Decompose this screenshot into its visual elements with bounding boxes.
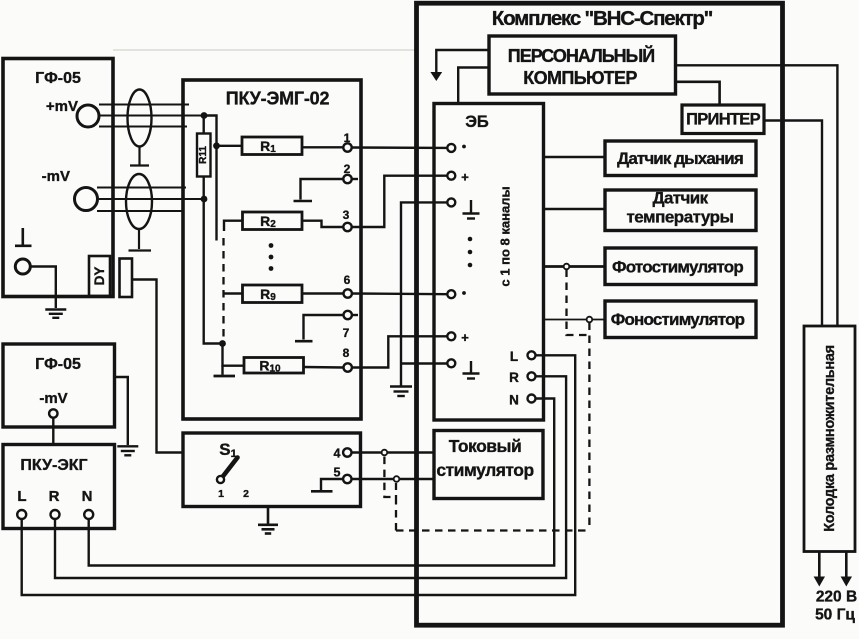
svg-text:2: 2 <box>243 488 249 500</box>
shield ground (upper) <box>130 147 149 166</box>
terminal N PKU-EKG <box>82 488 94 519</box>
breath sensor box <box>605 141 756 176</box>
dashed cable bottom run <box>396 529 589 531</box>
generator GF-05 (lower) box <box>3 344 115 427</box>
svg-text:ГФ-05: ГФ-05 <box>35 70 81 87</box>
svg-text:с 1 по 8 каналы: с 1 по 8 каналы <box>498 186 513 286</box>
wire input node to bus <box>204 116 217 241</box>
svg-text:Фоностимулятор: Фоностимулятор <box>611 310 745 329</box>
terminal -mV <box>42 168 98 211</box>
temperature sensor box <box>605 189 756 231</box>
ground bar terminal 7 <box>295 340 313 343</box>
tap circle on wire 5 <box>394 476 400 482</box>
ground bar terminal 5 <box>311 490 333 493</box>
mains arrow left <box>814 552 825 587</box>
terminal 6 <box>344 273 352 298</box>
wire switch 5 to current stimulator <box>352 478 435 480</box>
wire terminal 1 to EB <box>352 146 448 149</box>
terminal 8 <box>343 346 352 372</box>
wire EB to breath sensor <box>544 156 606 159</box>
wire terminal 8 to EB plus <box>352 336 447 367</box>
svg-text:+: + <box>461 170 469 185</box>
dashed bus channels 3..8 <box>222 238 224 342</box>
svg-text:N: N <box>509 393 519 408</box>
terminal R PKU-EKG <box>49 488 60 519</box>
svg-text:5: 5 <box>334 466 341 480</box>
wire R loop to PKU-EKG <box>55 376 566 578</box>
wire +mV triple to PKU-EMG-02 <box>99 105 204 127</box>
earth ground GF-05 lower <box>117 446 138 455</box>
terminal 4 <box>334 447 352 461</box>
complex box "VNS-Spektr" <box>417 3 783 625</box>
svg-text:N: N <box>82 488 93 505</box>
switch box <box>183 433 361 507</box>
terminal 3 <box>343 208 352 231</box>
phonostimulator box <box>605 301 756 338</box>
EB terminal R <box>509 370 535 385</box>
chassis arrow <box>430 72 442 81</box>
svg-text:R11: R11 <box>198 146 209 164</box>
junction dot on -mV wire <box>201 196 208 203</box>
earth ground below switch box <box>258 507 278 534</box>
ellipsis dots channels <box>269 243 274 271</box>
EB terminal in+ (lower) <box>447 330 469 345</box>
current stimulator box <box>434 431 543 499</box>
wire terminal 3 to EB plus <box>352 176 448 227</box>
wire terminal 7 to ground <box>304 315 344 340</box>
block PKU-EKG box <box>3 445 115 529</box>
tap circle on wire 4 <box>382 450 388 456</box>
resistor R9 <box>223 285 344 303</box>
ground terminal circle <box>15 259 30 274</box>
wire L loop to PKU-EKG <box>22 355 576 595</box>
svg-text:Датчик дыхания: Датчик дыхания <box>617 149 743 168</box>
EB ellipsis dots <box>468 237 473 268</box>
terminal 5 <box>334 466 352 484</box>
svg-text:ПКУ-ЭКГ: ПКУ-ЭКГ <box>20 457 87 474</box>
svg-text:8: 8 <box>343 346 350 360</box>
svg-text:50 Гц: 50 Гц <box>815 607 855 624</box>
wire switch 4 to current stimulator <box>352 451 435 453</box>
svg-text:R: R <box>49 488 60 505</box>
node junction dot top <box>201 112 208 119</box>
svg-text:220 В: 220 В <box>816 589 857 606</box>
terminal 2 <box>343 162 358 183</box>
svg-text:-mV: -mV <box>42 168 70 185</box>
switch S1 pivot <box>217 476 224 483</box>
connector plug beside DY <box>120 259 133 298</box>
svg-text:L: L <box>510 349 518 364</box>
wire EB to temperature sensor <box>544 208 606 210</box>
wire -mV triple to PKU-EMG-02 <box>97 188 204 212</box>
svg-text:Фотостимулятор: Фотостимулятор <box>612 258 743 277</box>
EB terminal in2 <box>447 290 466 298</box>
svg-text:ПРИНТЕР: ПРИНТЕР <box>686 111 761 129</box>
dashed cable to stimulator wires <box>384 456 396 531</box>
block EB (electronic unit) <box>434 104 544 421</box>
wire N loop to PKU-EKG <box>89 399 555 566</box>
svg-text:температуры: температуры <box>626 208 733 227</box>
terminal 1 <box>343 131 351 152</box>
svg-text:КОМПЬЮТЕР: КОМПЬЮТЕР <box>523 68 637 88</box>
resistor R10 <box>223 344 344 375</box>
personal computer box <box>489 36 676 94</box>
EB terminal in1 <box>447 144 466 152</box>
ground pin symbol inside GF-05 <box>15 228 32 246</box>
node junction dot R1 <box>213 142 220 149</box>
svg-text:R: R <box>509 370 519 385</box>
svg-text:+: + <box>461 330 469 345</box>
wire printer to kolodka <box>764 121 822 327</box>
wire R11 bottom down to common <box>204 177 223 344</box>
earth ground below GF-05 <box>45 310 66 318</box>
EB terminal L <box>510 349 536 364</box>
terminal -mV lower <box>49 409 57 417</box>
tap circle on photostimulator wire <box>564 264 570 270</box>
EB terminal N <box>509 393 535 408</box>
svg-text:3: 3 <box>343 208 350 222</box>
resistor R11 <box>197 116 211 177</box>
wire terminal 5 to ground <box>321 479 343 490</box>
shielded cable ellipse (upper) <box>128 90 152 147</box>
dashed cable photostimulator down <box>567 270 590 336</box>
distribution block (kolodka) box <box>804 326 855 552</box>
junction dot common bottom <box>219 340 226 347</box>
resistor R2 <box>224 212 343 231</box>
wire terminal 2 to ground <box>301 179 344 200</box>
mains arrow right <box>841 552 852 587</box>
ground bar terminal 2 <box>294 200 313 203</box>
dashed stub to tap 5 <box>395 483 397 497</box>
wire PC to EB <box>458 68 489 104</box>
svg-text:DY: DY <box>92 267 107 286</box>
svg-text:Токовый: Токовый <box>449 436 521 456</box>
svg-text:ПЕРСОНАЛЬНЫЙ: ПЕРСОНАЛЬНЫЙ <box>508 45 654 66</box>
printer box <box>682 105 764 134</box>
block PKU-EMG-02 box <box>183 80 361 419</box>
resistor R1 <box>217 137 344 155</box>
svg-text:ПКУ-ЭМГ-02: ПКУ-ЭМГ-02 <box>226 89 330 109</box>
wire GF-05 case to earth <box>115 377 128 445</box>
common ground bar EMG <box>214 366 236 376</box>
svg-text:ГФ-05: ГФ-05 <box>35 356 81 373</box>
svg-text:6: 6 <box>344 273 351 287</box>
EB terminal in+ (upper) <box>447 170 469 185</box>
EB terminal ground (upper) <box>447 198 479 218</box>
wire ground terminal to earth <box>30 267 56 309</box>
wire terminal 6 to EB <box>352 292 447 295</box>
svg-text:Колодка размножительная: Колодка размножительная <box>822 345 838 532</box>
wire EB to photostimulator <box>544 265 606 268</box>
wire PC to printer <box>676 82 720 105</box>
svg-text:ЭБ: ЭБ <box>465 113 489 131</box>
scan crease (decorative) <box>113 49 415 51</box>
wire -mV to PKU-EKG <box>52 418 54 445</box>
wire PC to chassis arrow <box>436 50 489 72</box>
svg-text:1: 1 <box>218 488 224 500</box>
generator GF-05 (upper) box <box>3 59 113 297</box>
earth ground EB line <box>390 387 412 397</box>
tap circle on phonostimulator wire <box>587 317 593 323</box>
shield ground (lower) <box>129 229 152 251</box>
svg-text:-mV: -mV <box>39 390 67 407</box>
connector DY <box>89 256 110 296</box>
svg-text:стимулятор: стимулятор <box>436 460 533 480</box>
terminal +mV <box>46 98 99 127</box>
svg-text:Датчик: Датчик <box>652 189 708 208</box>
photostimulator box <box>605 248 756 285</box>
shielded cable ellipse (lower) <box>126 174 152 229</box>
svg-text:7: 7 <box>343 326 350 340</box>
wire EB to phonostimulator <box>544 319 606 321</box>
terminal 7 <box>343 311 358 340</box>
dashed cable phonostimulator vertical <box>588 323 590 531</box>
wire PC to kolodka <box>676 65 838 326</box>
svg-text:4: 4 <box>334 447 341 461</box>
svg-text:+mV: +mV <box>46 98 78 115</box>
svg-text:L: L <box>17 488 26 505</box>
terminal L PKU-EKG <box>17 488 26 519</box>
switch S1 lever <box>222 458 238 478</box>
wire plug to switch box S1 <box>132 280 183 453</box>
svg-text:Комплекс "ВНС-Спектр": Комплекс "ВНС-Спектр" <box>492 7 713 30</box>
EB terminal ground (lower) <box>447 359 479 378</box>
wire EB grounds common <box>401 202 447 385</box>
